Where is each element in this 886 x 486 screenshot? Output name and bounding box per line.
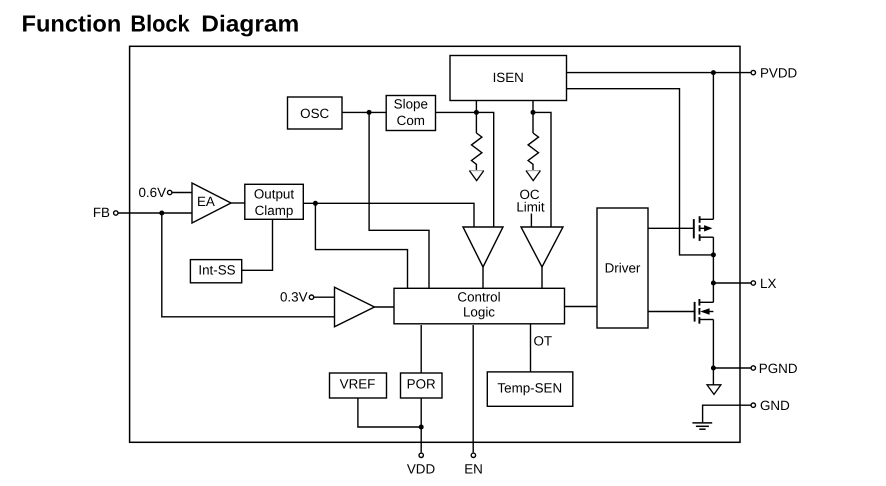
svg-text:Int-SS: Int-SS: [198, 263, 235, 278]
svg-text:Block: Block: [130, 11, 189, 37]
wire Control Logic to Driver: [565, 306, 598, 308]
wire FB input: [118, 212, 192, 214]
block Temp-SEN: [487, 372, 573, 406]
wire OSC to Slope Com: [342, 111, 386, 113]
transistor M2: [695, 299, 714, 324]
wire Control Logic to POR: [420, 325, 422, 373]
wire VREF to VDD node: [358, 398, 421, 427]
node OSC junction: [367, 110, 372, 115]
block Control Logic: [394, 288, 565, 324]
svg-text:Control: Control: [457, 290, 500, 305]
block OSC: [288, 97, 343, 129]
svg-text:Diagram: Diagram: [201, 11, 299, 37]
block Slope Com: [386, 96, 435, 131]
wire OC comparator output: [541, 267, 543, 288]
svg-text:Function: Function: [22, 11, 122, 37]
svg-text:EA: EA: [197, 194, 215, 209]
wire comparator 0.3V output: [375, 306, 395, 308]
terminal EN: [471, 453, 475, 457]
svg-text:LX: LX: [760, 276, 776, 291]
svg-text:Com: Com: [397, 113, 425, 128]
terminal 0.6V: [168, 190, 172, 194]
wire PGND output: [713, 367, 751, 369]
ground symbol: [692, 423, 712, 429]
wire POR to VDD: [420, 398, 422, 452]
wire PWM comparator output: [482, 267, 484, 288]
block ISEN: [450, 56, 567, 101]
svg-text:Clamp: Clamp: [255, 203, 294, 218]
wire ISEN sense to switch node: [567, 89, 714, 255]
wire Slope Com to PWM comparator: [436, 112, 494, 227]
block Output Clamp: [245, 184, 303, 219]
wire FB vertical: [162, 213, 335, 317]
node VDD junction: [419, 425, 424, 430]
node PVDD junction: [711, 70, 716, 75]
terminal LX: [751, 281, 755, 285]
terminal VDD: [419, 453, 423, 457]
wire ISEN right sense leg: [532, 101, 534, 134]
node ISEN right junction: [531, 110, 536, 115]
terminal PVDD: [751, 70, 755, 74]
node sense junction: [711, 252, 716, 257]
wire OT to Temp-SEN: [530, 324, 532, 372]
resistor R2: [528, 133, 538, 170]
svg-text:OSC: OSC: [300, 106, 329, 121]
comparator 0.3V: [335, 287, 375, 327]
block POR: [401, 373, 443, 398]
node ISEN left junction: [474, 110, 479, 115]
comparator OC: [521, 227, 563, 267]
wire PVDD to M1 drain: [712, 73, 714, 220]
node Output Clamp junction: [313, 201, 318, 206]
terminal GND: [751, 403, 755, 407]
svg-text:EN: EN: [464, 461, 483, 476]
svg-text:PVDD: PVDD: [760, 65, 798, 80]
wire GND: [703, 405, 752, 423]
terminal PGND: [751, 366, 755, 370]
comparator PWM: [463, 227, 503, 267]
op-amp EA: [192, 183, 231, 223]
wire ISEN left sense leg: [475, 101, 477, 134]
terminal 0.3V: [309, 295, 313, 299]
wire EN: [472, 325, 474, 452]
svg-text:GND: GND: [760, 398, 790, 413]
wire M2 source to PGND: [712, 320, 714, 385]
title Function Block Diagram: [22, 11, 300, 37]
svg-text:Output: Output: [254, 186, 294, 201]
svg-text:OT: OT: [534, 334, 553, 349]
svg-text:Limit: Limit: [516, 200, 545, 215]
wire clamp junction to Control Logic: [315, 203, 407, 288]
terminal FB: [114, 211, 118, 215]
power ground arrow: [707, 385, 721, 395]
svg-text:Driver: Driver: [605, 261, 641, 276]
wire Driver to M2 gate: [648, 311, 694, 313]
svg-text:Temp-SEN: Temp-SEN: [497, 380, 562, 395]
wire Int-SS to Output Clamp: [242, 220, 273, 271]
resistor R1: [472, 133, 482, 170]
IC boundary box: [130, 46, 740, 442]
svg-text:Slope: Slope: [394, 97, 428, 112]
svg-text:0.6V: 0.6V: [138, 185, 166, 200]
wire Driver to M1 gate: [648, 227, 693, 229]
node PGND junction: [711, 366, 716, 371]
wire 0.3V stub: [314, 296, 335, 298]
svg-text:ISEN: ISEN: [493, 70, 524, 85]
svg-text:PGND: PGND: [759, 361, 798, 376]
transistor M1: [694, 216, 714, 241]
svg-text:VDD: VDD: [407, 461, 436, 476]
svg-text:FB: FB: [93, 205, 110, 220]
wire M1 source to M2 drain: [712, 237, 714, 302]
block Driver: [597, 208, 648, 328]
current sink arrow 2: [526, 171, 540, 181]
svg-text:0.3V: 0.3V: [280, 290, 308, 305]
current sink arrow 1: [469, 171, 483, 181]
wire EA output: [231, 202, 245, 204]
wire ISEN right junction to OC comparator: [533, 112, 551, 227]
wire OC Limit stub: [530, 214, 532, 228]
wire 0.6V to EA: [172, 192, 192, 194]
wire OSC to Control Logic: [369, 112, 429, 288]
svg-text:Logic: Logic: [463, 305, 495, 320]
node LX junction: [711, 281, 716, 286]
wire Output Clamp to PWM comparator: [303, 203, 474, 227]
block Int-SS: [190, 260, 241, 283]
wire ISEN to PVDD: [567, 72, 752, 74]
node FB junction: [159, 211, 164, 216]
svg-text:POR: POR: [407, 377, 436, 392]
block VREF: [330, 373, 387, 398]
wire LX output: [713, 282, 751, 284]
svg-text:VREF: VREF: [340, 377, 376, 392]
